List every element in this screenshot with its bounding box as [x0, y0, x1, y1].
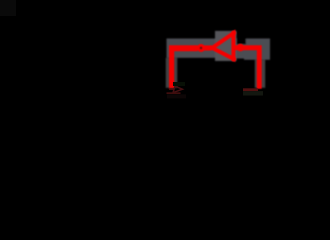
wire (top-left horizontal segment): [169, 45, 198, 89]
wire (bubble to triangle link): [204, 45, 212, 50]
wire (top-right horizontal + right vertical segment): [235, 45, 262, 89]
op-amp U1 (inverter gate highlight box): [215, 31, 237, 61]
current arrow (right wire end stub, dim): [243, 88, 263, 95]
transistor/inverter U1 triangle: [208, 30, 236, 61]
node A (top-left dark square): [0, 0, 16, 16]
wire (right vertical halo): [255, 60, 265, 88]
current arrow (left wire end, dim): [167, 82, 187, 98]
wire (left vertical halo): [166, 58, 178, 88]
wire (horizontal net halo band): [167, 39, 271, 60]
inverter U1 bubble: [198, 45, 203, 50]
junction dot (input pin): [237, 44, 245, 52]
